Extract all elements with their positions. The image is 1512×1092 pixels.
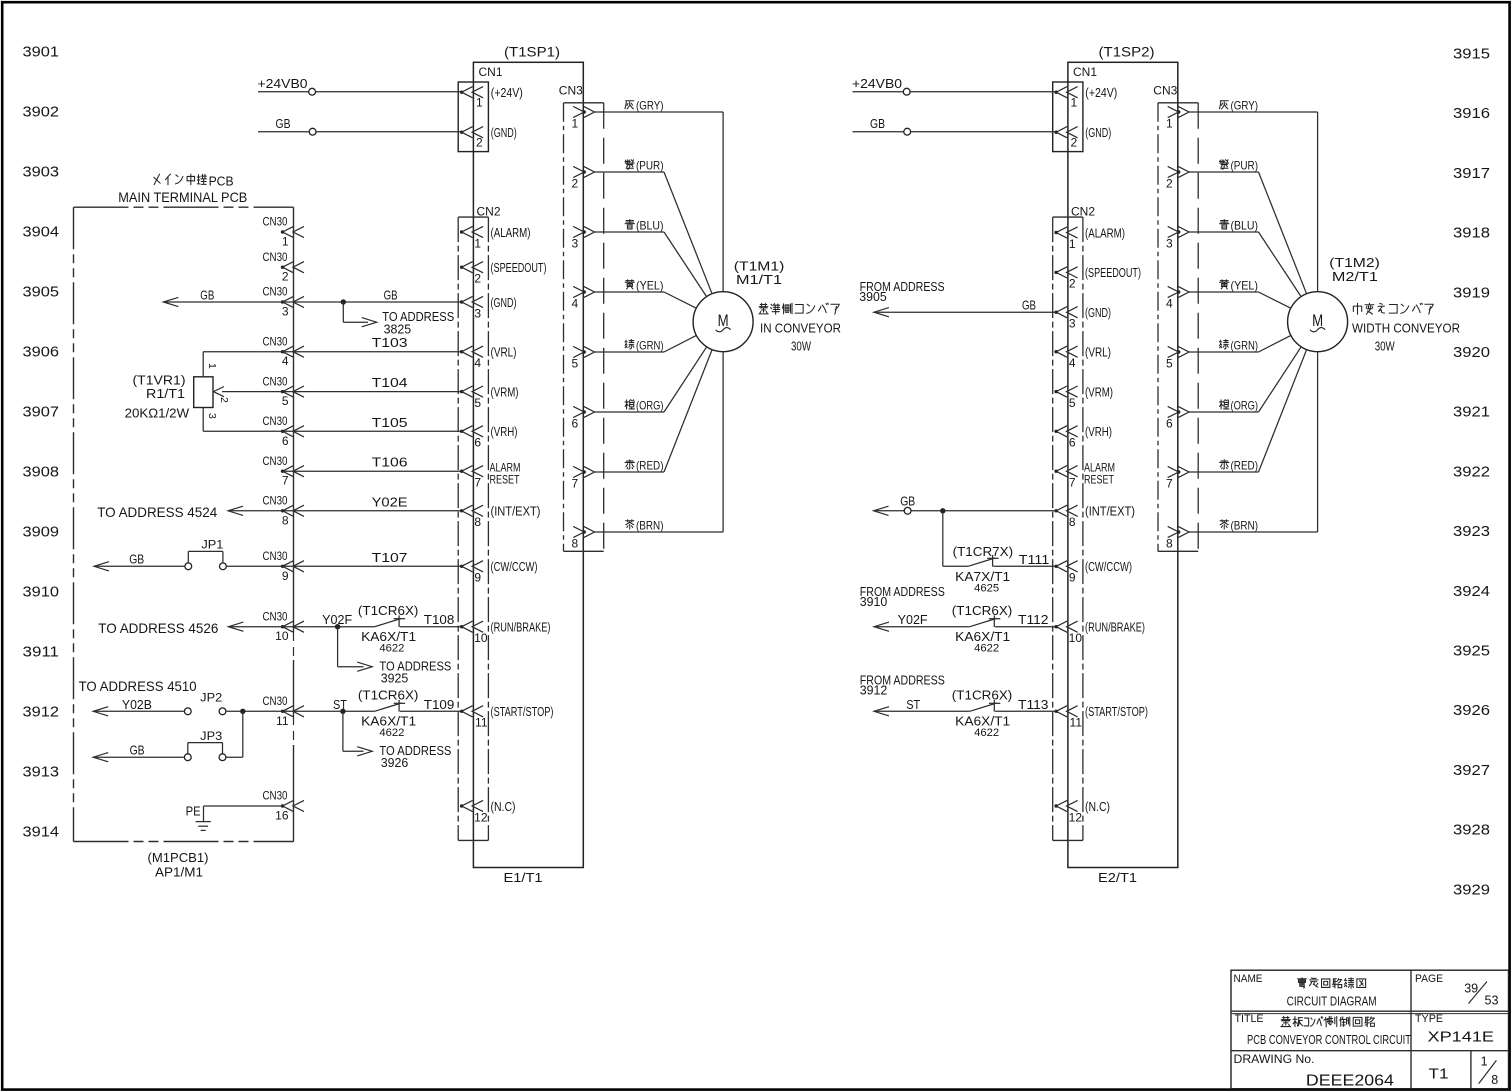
label FROM ADDRESS 3905 [859,280,944,304]
row label 3926 [1453,703,1490,719]
svg-text:T104: T104 [372,375,408,390]
connector CN30 pin 11 [263,696,305,728]
label (T1CR7X) [953,545,1014,559]
label GB JP1 [129,553,144,567]
title 電気回路線図 [1298,978,1366,988]
svg-text:(T1CR6X): (T1CR6X) [358,604,419,618]
row label 3925 [1453,644,1490,660]
svg-text:+24VB0: +24VB0 [258,76,308,91]
svg-text:(RED): (RED) [1231,459,1259,473]
row label 3923 [1453,524,1490,540]
svg-text:8: 8 [572,537,579,551]
svg-text:CN30: CN30 [263,611,288,623]
connector CN3 pin 5 [1166,346,1189,370]
connector CN3 pin 2 [572,166,595,190]
connector CN2-2 pin 8 [1054,505,1077,529]
svg-text:CN30: CN30 [263,416,288,428]
label (VRM) [491,385,519,399]
wire CN3 pin6 horizontal [595,411,665,413]
svg-text:PE: PE [186,805,201,819]
connector CN2-2 pin 6 [1054,426,1077,450]
svg-text:E2/T1: E2/T1 [1098,870,1137,885]
connector CN2-2 pin 11 [1054,706,1082,730]
row label 3908 [23,465,60,481]
svg-text:9: 9 [474,571,481,585]
svg-text:3902: 3902 [23,105,60,121]
label (CW/CCW) [491,560,538,574]
label CN3 [1153,84,1177,98]
label T106 [372,455,408,470]
potentiometer R1/T1 (T1VR1) [194,352,230,432]
svg-text:MAIN TERMINAL PCB: MAIN TERMINAL PCB [118,189,247,205]
label (GND) [491,126,517,140]
connector CN1 pin 2 [460,127,483,150]
wire JP3 junction riser [242,711,244,757]
label (N.C) right [1085,800,1110,814]
connector CN1 pin 1 [1054,87,1077,110]
row label 3928 [1453,823,1490,839]
svg-text:(PUR): (PUR) [636,159,664,173]
svg-text:3927: 3927 [1453,763,1490,779]
connector CN2 pin 9 ((CW/CCW)) [460,561,483,585]
title 基板コンベヤ制御回路 [1281,1016,1374,1026]
connector CN3 pin 2 [1166,166,1189,190]
svg-text:3901: 3901 [23,45,60,61]
label GRY wire colour [625,99,664,113]
svg-text:3909: 3909 [23,525,60,541]
row label 3906 [23,345,60,361]
connector CN30 pin 8 [263,496,305,528]
connector CN1 pin 1 [460,87,483,110]
svg-text:(GRN): (GRN) [1231,339,1259,353]
label 4622 [379,642,404,654]
svg-text:CN3: CN3 [559,84,583,98]
label GRN wire colour [1219,339,1258,353]
label IN CONVEYOR [760,321,841,336]
svg-text:GB: GB [276,116,291,131]
label メイン中継PCB [154,174,234,188]
label M1/T1 [736,273,782,287]
title block frame [1231,970,1509,1088]
label (T1VR1) [133,373,186,387]
label (+24V) [1085,86,1117,100]
wire CN3 pin1 to motor trunk [595,111,724,113]
node GB junction [341,299,346,304]
svg-text:NAME: NAME [1234,973,1263,985]
label E2/T1 [1098,870,1137,885]
svg-text:3906: 3906 [23,345,60,361]
svg-text:(N.C): (N.C) [491,800,516,814]
label 巾変えコンベア [1353,303,1433,314]
connector CN2-2 pin 7 [1054,466,1077,490]
svg-text:(CW/CCW): (CW/CCW) [1085,560,1132,574]
connector CN3 pin 4 [1166,286,1189,310]
svg-text:2: 2 [1166,177,1173,191]
row label 3924 [1453,584,1490,600]
svg-text:2: 2 [476,136,483,150]
label CN2 [1071,205,1095,219]
label GB right [384,289,398,303]
node JP2 junction [240,709,245,714]
connector CN1 box [1053,82,1083,152]
row label 3903 [23,165,60,181]
label ALARM RESET right [1084,463,1115,487]
svg-text:4622: 4622 [974,642,999,654]
svg-text:Y02F: Y02F [898,613,928,627]
svg-text:12: 12 [474,810,488,824]
label T113 [1018,697,1049,712]
row label 3902 [23,105,60,121]
ground PE [196,806,211,830]
svg-text:4622: 4622 [974,727,999,739]
svg-text:CN30: CN30 [263,287,288,299]
svg-text:7: 7 [1166,477,1173,491]
connector CN30 pin 9 [263,551,305,583]
label GB right top [870,116,885,131]
svg-text:PAGE: PAGE [1415,973,1443,985]
terminal GB [309,128,316,135]
title CIRCUIT DIAGRAM [1287,994,1377,1009]
wire T113 [995,710,1056,712]
svg-text:4: 4 [474,356,481,370]
svg-text:9: 9 [282,569,289,583]
svg-text:(YEL): (YEL) [1231,279,1259,293]
svg-text:3: 3 [282,305,289,319]
label (ALARM) right [1085,226,1125,240]
svg-text:(VRH): (VRH) [491,425,518,439]
svg-text:ALARM: ALARM [490,463,521,475]
svg-text:3924: 3924 [1453,584,1490,600]
connector CN2-2 pin 10 [1054,621,1082,645]
row label 3913 [23,765,60,781]
svg-text:T107: T107 [372,550,408,565]
relay contact T1CR6X (T109) [375,700,406,712]
label 4622 T112 [974,642,999,654]
svg-text:(GRY): (GRY) [1231,99,1259,113]
svg-text:(GND): (GND) [1085,306,1111,320]
label ALARM RESET [490,463,521,487]
svg-text:GB: GB [129,553,144,567]
connector CN3 pin 5 [572,346,595,370]
svg-text:4: 4 [1166,297,1173,311]
label (CW/CCW) right [1085,560,1132,574]
connector CN3 pin 3 [572,226,595,250]
svg-text:3923: 3923 [1453,524,1490,540]
label +24VB0 [258,76,308,91]
svg-text:WIDTH CONVEYOR: WIDTH CONVEYOR [1352,321,1460,336]
svg-text:T103: T103 [372,335,408,350]
svg-text:3929: 3929 [1453,882,1490,898]
label (T1CR6X) row11 [358,689,419,703]
svg-text:1: 1 [1069,237,1076,251]
svg-text:7: 7 [1069,476,1076,490]
svg-text:(T1M1): (T1M1) [734,259,785,273]
svg-text:3907: 3907 [23,405,60,421]
wire branch to address 3926 [343,711,372,756]
svg-text:(CW/CCW): (CW/CCW) [491,560,538,574]
wire CN3 pin2 horizontal [595,171,665,173]
svg-text:2: 2 [572,177,579,191]
terminal GB right top [904,128,911,135]
row label 3904 [23,225,60,241]
svg-text:12: 12 [1069,810,1083,824]
svg-text:RESET: RESET [1084,474,1114,486]
node GB junction right [940,508,945,513]
connector CN2 pin 11 ((START/STOP)) [460,706,488,730]
connector CN30 pin 10 [263,611,305,643]
svg-text:Y02E: Y02E [372,494,408,509]
svg-text:16: 16 [275,809,289,823]
svg-text:4: 4 [1069,356,1076,370]
label CN2 [477,205,501,219]
title DRAWING No. label [1234,1054,1315,1066]
label Y02F right [898,613,928,627]
wire CN3 pin7 horizontal [595,471,665,473]
svg-text:4622: 4622 [379,727,404,739]
svg-text:JP1: JP1 [201,540,223,552]
connector CN3 box [564,103,604,552]
svg-text:CN30: CN30 [263,496,288,508]
wire ST right [874,707,970,716]
connector CN2 pin 8 ((INT/EXT)) [460,505,483,529]
svg-text:3912: 3912 [23,705,60,721]
svg-text:CN30: CN30 [263,696,288,708]
connector CN30 pin 5 [263,376,305,408]
connector CN2-2 pin 3 [1054,307,1077,331]
label T111 [1019,552,1050,567]
label TO ADDRESS 3825 [382,310,454,336]
wire CN3-2 pin8 to motor trunk [1189,531,1318,533]
svg-text:5: 5 [474,396,481,410]
connector CN3 pin 3 [1166,226,1189,250]
svg-text:5: 5 [572,357,579,371]
label (GND) [491,296,517,310]
connector CN2-2 pin 1 [1054,227,1077,251]
svg-text:2: 2 [1069,277,1076,291]
label RED wire colour [1220,459,1258,473]
label ST right [906,698,920,712]
wire branch to address 3825 [343,302,376,327]
terminal +24VB0 right [903,88,910,95]
svg-text:TO ADDRESS 4510: TO ADDRESS 4510 [79,678,197,694]
connector CN3 pin 4 [572,286,595,310]
motor M2 (T1M2) [1259,112,1348,532]
connector CN3 box [1158,103,1198,552]
connector CN30 pin 3 [263,287,305,319]
wire CN3-2 pin2 horizontal [1189,171,1259,173]
svg-text:(START/STOP): (START/STOP) [491,705,554,719]
wire T111 [993,565,1056,567]
label JP2 [200,693,222,705]
svg-text:TO ADDRESS 4524: TO ADDRESS 4524 [97,504,217,520]
svg-text:Y02B: Y02B [122,698,152,712]
terminal GB INT/EXT [904,507,911,514]
svg-text:(ALARM): (ALARM) [491,226,531,240]
svg-text:3920: 3920 [1453,345,1490,361]
svg-text:(VRM): (VRM) [1085,385,1113,399]
jumper JP2 [184,708,226,715]
module box (T1SP2) E2/T1 [1068,62,1178,867]
connector CN30 pin 1 [263,217,305,249]
label TO ADDRESS 4510 [79,678,197,694]
label YEL wire colour [1220,279,1258,293]
svg-text:(INT/EXT): (INT/EXT) [491,505,541,519]
title PCB CONVEYOR CONTROL CIRCUIT [1247,1033,1411,1047]
label TO ADDRESS 4526 [98,620,218,636]
jumper JP1 [185,551,226,569]
connector CN3 pin 1 [1166,106,1189,130]
svg-text:3925: 3925 [381,671,409,685]
label (SPEEDOUT) right [1085,266,1141,280]
wire GB right top [853,131,1057,133]
title sheet T1 [1429,1066,1449,1082]
wire T104 wiper [222,391,462,393]
svg-text:(BRN): (BRN) [636,519,664,533]
title page number 39/53 [1464,981,1498,1008]
svg-text:T105: T105 [372,415,408,430]
svg-text:R1/T1: R1/T1 [146,387,185,401]
wire CN3-2 pin7 horizontal [1189,471,1259,473]
svg-text:1: 1 [206,363,218,369]
svg-text:8: 8 [1166,537,1173,551]
row label 3901 [23,45,60,61]
label (INT/EXT) right [1085,505,1135,519]
svg-text:3928: 3928 [1453,823,1490,839]
row label 3929 [1453,882,1490,898]
svg-text:CN1: CN1 [479,65,503,79]
label (SPEEDOUT) [491,261,547,275]
label TO ADDRESS 3925 [379,659,451,685]
label GB [276,116,291,131]
wire T105 [203,430,461,432]
svg-text:6: 6 [572,417,579,431]
label (T1SP2) [1099,44,1155,59]
connector CN2 pin 1 ((ALARM)) [460,226,483,250]
svg-text:ALARM: ALARM [1084,463,1115,475]
svg-text:DRAWING No.: DRAWING No. [1234,1054,1315,1066]
svg-text:T106: T106 [372,455,408,470]
label FROM ADDRESS 3910 [860,585,945,609]
wire Y02F right [874,622,970,631]
svg-text:JP3: JP3 [200,731,222,743]
jumper JP3 [184,743,226,761]
svg-text:3922: 3922 [1453,464,1490,480]
svg-text:10: 10 [275,629,289,643]
svg-text:(ORG): (ORG) [1231,399,1259,413]
svg-text:CN3: CN3 [1153,84,1177,98]
wire GB (CN1-2) [258,131,462,133]
label (T1M1) [734,259,785,273]
svg-text:3: 3 [1166,237,1173,251]
wire CN3-2 pin1 to motor trunk [1189,111,1318,113]
connector CN2 box [458,217,488,840]
label KA6X/T1 T112 [955,630,1010,644]
svg-text:1: 1 [476,96,483,110]
title NAME label [1234,973,1263,985]
svg-text:(GRY): (GRY) [636,99,664,113]
label (ALARM) [491,226,531,240]
label KA6X/T1 [361,630,416,644]
row label 3922 [1453,464,1490,480]
label KA6X/T1 row11 [361,715,416,729]
row label 3912 [23,705,60,721]
svg-text:7: 7 [282,474,289,488]
label MAIN TERMINAL PCB [118,189,247,205]
svg-text:3919: 3919 [1453,285,1490,301]
svg-text:20KΩ1/2W: 20KΩ1/2W [125,406,190,420]
svg-text:3: 3 [206,413,218,419]
svg-text:8: 8 [1069,515,1076,529]
svg-text:(+24V): (+24V) [491,86,523,100]
svg-text:CN30: CN30 [263,791,288,803]
row label 3919 [1453,285,1490,301]
svg-text:3: 3 [474,306,481,320]
svg-text:T109: T109 [424,697,455,712]
wire CN3-2 pin6 horizontal [1189,411,1259,413]
label 30W right [1375,339,1396,354]
svg-text:11: 11 [1070,716,1083,730]
label (GND) right [1085,306,1111,320]
svg-text:(BLU): (BLU) [1231,219,1259,233]
svg-text:T108: T108 [424,612,455,627]
row label 3905 [23,285,60,301]
connector CN3 pin 6 [1166,406,1189,430]
svg-text:(RED): (RED) [636,459,664,473]
svg-text:(VRH): (VRH) [1085,425,1112,439]
connector CN30 pin 2 [263,252,305,284]
connector CN2 pin 10 ((RUN/BRAKE)) [460,621,488,645]
svg-text:(T1VR1): (T1VR1) [133,373,186,387]
svg-text:3908: 3908 [23,465,60,481]
wire Y02B [93,707,184,716]
svg-text:GB: GB [130,744,145,758]
svg-text:CN30: CN30 [263,336,288,348]
label E1/T1 [504,870,543,885]
svg-text:3914: 3914 [23,825,60,841]
svg-text:CN30: CN30 [263,252,288,264]
svg-text:4625: 4625 [974,582,999,594]
label 基準側コンベア [759,303,839,314]
svg-text:7: 7 [572,477,579,491]
svg-text:(T1CR6X): (T1CR6X) [358,689,419,703]
svg-text:(N.C): (N.C) [1085,800,1110,814]
svg-text:4622: 4622 [379,642,404,654]
wire T112 [995,626,1056,628]
svg-text:2: 2 [1071,136,1078,150]
connector CN2 pin 4 ((VRL)) [460,346,483,370]
svg-text:(BRN): (BRN) [1231,519,1259,533]
label GB INT/EXT [900,494,915,508]
label (T1CR6X) [358,604,419,618]
svg-text:(VRL): (VRL) [1085,346,1111,360]
wire to contact T111 [943,565,968,567]
title PAGE label [1415,973,1443,985]
svg-text:11: 11 [475,716,488,730]
label (VRH) [491,425,518,439]
relay contact T1CR6X (T112) [970,615,1001,627]
svg-text:1: 1 [474,236,481,250]
label PE [186,805,201,819]
module box (T1SP1) E1/T1 [473,62,583,867]
wire CN3-2 pin3 horizontal [1189,231,1259,233]
label BLU wire colour [1220,219,1258,233]
connector CN3 pin 6 [572,406,595,430]
svg-text:(PUR): (PUR) [1231,159,1259,173]
row label 3927 [1453,763,1490,779]
label BRN wire colour [1220,519,1258,533]
wire branch to address 3925 [338,627,373,672]
svg-text:GB: GB [200,289,214,303]
